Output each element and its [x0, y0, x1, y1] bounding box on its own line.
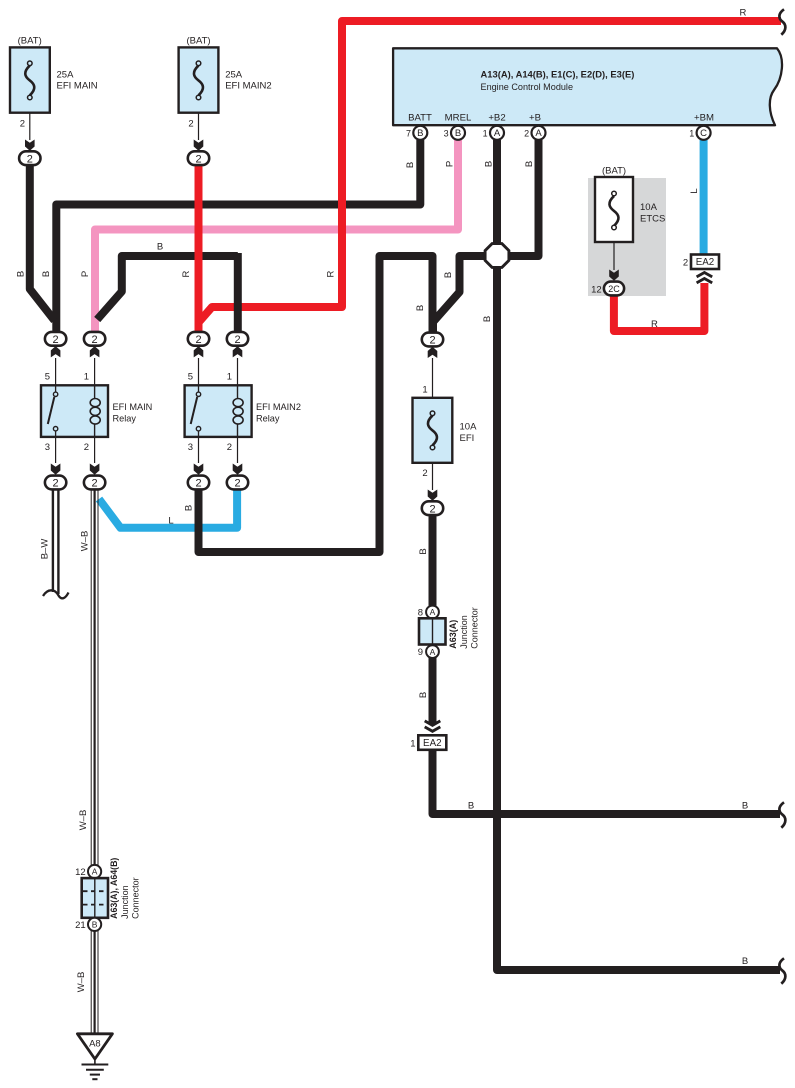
svg-text:2: 2 — [27, 153, 33, 165]
fuse F2 25A EFI MAIN2 — [179, 36, 272, 141]
svg-text:2: 2 — [20, 119, 25, 130]
svg-text:2: 2 — [234, 478, 240, 490]
wire B from BATT pin 7 to EFI MAIN relay pin 5 — [56, 140, 420, 332]
ECM pin 1 circled C (+BM) — [689, 126, 710, 140]
ECM pin 1 circled A (+B2) — [483, 126, 504, 140]
svg-text:A13(A), A14(B), E1(C), E2(D),: A13(A), A14(B), E1(C), E2(D), E3(E) — [481, 69, 635, 80]
connector EA2 (left) pin 1 — [410, 735, 446, 750]
wire B from ECM +B2 pin 1 down to lower B line — [497, 140, 780, 970]
svg-text:B–W: B–W — [40, 539, 51, 560]
wire B from ECM +B pin 2 to octagon junction — [505, 140, 539, 256]
svg-text:W–B: W–B — [76, 972, 87, 993]
svg-text:2: 2 — [53, 478, 59, 490]
svg-text:B: B — [742, 956, 748, 967]
svg-text:2: 2 — [84, 442, 89, 453]
svg-text:R: R — [326, 270, 337, 277]
ECM U1 Engine Control Module box — [393, 48, 782, 125]
ECM pin 2 circled A (+B) — [524, 126, 545, 140]
svg-text:8: 8 — [418, 608, 423, 619]
svg-text:R: R — [651, 319, 658, 330]
fuse F1 25A EFI MAIN — [10, 36, 98, 141]
svg-text:B: B — [16, 271, 27, 277]
svg-text:2: 2 — [92, 334, 98, 346]
octagon junction node of +B/+B2 — [485, 244, 509, 268]
svg-text:1: 1 — [410, 739, 415, 750]
svg-text:1: 1 — [422, 385, 427, 396]
arrow into connector 2C below ETCS fuse — [609, 270, 619, 281]
wire P from MREL pin 3 to EFI MAIN relay pin 1 — [95, 140, 458, 332]
svg-text:B: B — [418, 548, 429, 554]
svg-text:1: 1 — [689, 128, 694, 138]
arrow into connector below fuse F2 — [194, 140, 204, 151]
svg-text:2C: 2C — [608, 284, 620, 294]
svg-text:2: 2 — [524, 128, 529, 138]
svg-text:A63(A), A64(B): A63(A), A64(B) — [109, 858, 119, 919]
svg-text:B: B — [41, 271, 52, 277]
break squiggle right end of lower B wire — [779, 958, 785, 983]
svg-text:+B: +B — [529, 113, 541, 124]
svg-text:EA2: EA2 — [423, 738, 442, 749]
svg-text:B: B — [482, 316, 493, 322]
svg-text:2: 2 — [92, 478, 98, 490]
break squiggle right end of top R wire — [779, 9, 785, 34]
svg-text:2: 2 — [429, 503, 435, 515]
svg-text:B: B — [417, 128, 423, 139]
svg-text:(BAT): (BAT) — [18, 36, 42, 47]
svg-text:B: B — [742, 801, 748, 812]
relay K1 EFI MAIN Relay — [41, 358, 152, 463]
relay K2 EFI MAIN2 Relay — [185, 358, 301, 463]
svg-text:A: A — [430, 647, 436, 657]
ground A8 — [77, 1034, 112, 1079]
wire W-B from junction connector A63(A),A64(B) pin 21 to ground A8 — [91, 930, 98, 1034]
svg-text:12: 12 — [591, 284, 602, 295]
svg-text:(BAT): (BAT) — [186, 36, 210, 47]
svg-text:25A: 25A — [57, 70, 75, 81]
svg-text:B: B — [468, 801, 474, 812]
svg-text:21: 21 — [75, 920, 86, 931]
svg-text:B: B — [92, 920, 98, 930]
svg-text:W–B: W–B — [80, 531, 91, 552]
svg-text:B: B — [524, 161, 535, 167]
svg-text:L: L — [689, 188, 700, 193]
arrow into connector below fuse F1 — [25, 140, 35, 151]
svg-text:Connector: Connector — [469, 607, 479, 649]
svg-text:+BM: +BM — [694, 113, 714, 124]
svg-text:+B2: +B2 — [488, 113, 505, 124]
fuse F4 10A EFI — [413, 333, 478, 516]
wire B from 10A EFI fuse pin 2 to junction connector A63(A) — [429, 512, 437, 608]
svg-text:2: 2 — [227, 442, 232, 453]
svg-text:25A: 25A — [225, 70, 243, 81]
svg-text:Connector: Connector — [130, 877, 140, 919]
svg-text:P: P — [80, 271, 91, 277]
svg-text:10A: 10A — [460, 422, 478, 433]
svg-text:ETCS: ETCS — [640, 214, 665, 225]
svg-text:2: 2 — [195, 334, 201, 346]
svg-text:7: 7 — [406, 128, 411, 138]
svg-text:B: B — [455, 128, 461, 139]
svg-text:B: B — [484, 161, 495, 167]
svg-text:10A: 10A — [640, 202, 658, 213]
svg-text:A: A — [494, 128, 501, 139]
svg-text:A: A — [92, 867, 98, 877]
svg-text:2: 2 — [195, 153, 201, 165]
wire B from EFI MAIN2 relay pin 3 to 10A EFI fuse — [199, 256, 433, 552]
svg-text:P: P — [445, 161, 456, 167]
svg-text:B: B — [418, 692, 429, 698]
svg-text:1: 1 — [483, 128, 488, 138]
svg-text:R: R — [181, 270, 192, 277]
svg-text:5: 5 — [45, 372, 50, 383]
svg-text:EFI MAIN2: EFI MAIN2 — [225, 81, 271, 92]
svg-text:9: 9 — [418, 647, 423, 658]
svg-text:EA2: EA2 — [696, 257, 715, 268]
svg-text:2: 2 — [53, 334, 59, 346]
svg-text:5: 5 — [188, 372, 193, 383]
connector ovals above relay K1 — [51, 346, 61, 357]
wire B from fuse EFI MAIN to EFI MAIN relay pin 5 — [30, 160, 55, 321]
svg-text:(BAT): (BAT) — [602, 166, 626, 177]
connector ovals below relay K1 — [51, 464, 61, 475]
svg-text:B: B — [415, 305, 426, 311]
svg-text:B: B — [184, 505, 195, 511]
svg-text:A63(A): A63(A) — [448, 620, 458, 649]
svg-text:B: B — [157, 242, 163, 253]
wire B from junction connector A63(A) pin 9 to EA2 (left) — [429, 656, 437, 725]
svg-text:A8: A8 — [89, 1039, 101, 1050]
svg-text:3: 3 — [444, 128, 449, 138]
wire B-W from EFI MAIN relay pin 3 (black with white stripe) — [53, 488, 59, 594]
svg-text:B: B — [405, 162, 416, 168]
connector ovals above relay K2 — [194, 346, 204, 357]
wire W-B from EFI MAIN relay pin 2 to junction connector A63(A),A64(B) pin 12 (white with black stripe) — [91, 488, 98, 866]
gray battery block for ETCS fuse — [588, 178, 666, 296]
svg-text:3: 3 — [45, 442, 50, 453]
connector oval 2 below fuse F2 — [188, 151, 209, 165]
svg-text:EFI MAIN2: EFI MAIN2 — [256, 402, 301, 412]
wire B from +B2/+B junction to EFI MAIN relay pin 1 and EFI MAIN2 relay pin 1 — [97, 256, 238, 320]
svg-text:A: A — [535, 128, 542, 139]
break squiggle right end of middle B wire — [779, 802, 785, 827]
wire R from top right edge to EFI MAIN2 relay pin 5 — [199, 21, 782, 323]
connector oval 2C pin 12 — [591, 282, 624, 296]
svg-text:L: L — [168, 516, 173, 527]
break squiggle at end of B-W wire — [43, 590, 69, 598]
junction connector A63(A),A64(B) — [75, 858, 140, 931]
svg-text:R: R — [740, 8, 747, 19]
wire L from ECM +BM pin 1 to connector EA2 (right) — [700, 140, 708, 256]
wire R from fuse EFI MAIN2 to EFI MAIN2 relay pin 5 — [195, 160, 203, 332]
svg-text:Junction: Junction — [120, 885, 130, 919]
wire B segment over red from +B2/+B to EFI MAIN2 relay pin 1 — [234, 253, 242, 333]
ECM pin 3 circled B (MREL) — [444, 126, 465, 140]
svg-text:3: 3 — [188, 442, 193, 453]
svg-text:C: C — [700, 128, 707, 139]
connector ovals below relay K2 — [194, 464, 204, 475]
svg-text:W–B: W–B — [78, 810, 89, 831]
svg-text:Engine Control Module: Engine Control Module — [481, 82, 574, 92]
svg-text:BATT: BATT — [408, 113, 432, 124]
connector oval 2 below fuse F1 — [19, 151, 40, 165]
wire L from EFI MAIN relay pin 2 to EFI MAIN2 relay pin 2 — [99, 488, 237, 528]
svg-text:A: A — [430, 607, 436, 617]
svg-text:1: 1 — [84, 372, 89, 383]
junction connector A63(A) — [418, 606, 480, 658]
svg-text:1: 1 — [227, 372, 232, 383]
double chevron arrow into EA2 (right) — [697, 273, 713, 283]
svg-text:Relay: Relay — [256, 414, 280, 424]
svg-text:Junction: Junction — [459, 615, 469, 649]
svg-text:B: B — [443, 272, 454, 278]
svg-text:MREL: MREL — [445, 113, 472, 124]
svg-text:2: 2 — [429, 335, 435, 347]
svg-text:12: 12 — [75, 867, 86, 878]
svg-text:2: 2 — [422, 468, 427, 479]
svg-text:EFI MAIN: EFI MAIN — [113, 402, 153, 412]
svg-text:2: 2 — [188, 119, 193, 130]
wire R from 10A ETCS fuse to connector EA2 (right) — [614, 283, 705, 331]
double chevron arrow into EA2 (left) — [425, 721, 441, 731]
wire B from octagon junction to 10A EFI fuse — [433, 256, 490, 333]
svg-text:2: 2 — [683, 258, 688, 269]
connector EA2 (right) pin 2 — [683, 255, 719, 270]
svg-text:2: 2 — [195, 478, 201, 490]
svg-text:EFI: EFI — [460, 433, 475, 444]
svg-text:2: 2 — [234, 334, 240, 346]
svg-text:EFI MAIN: EFI MAIN — [57, 81, 98, 92]
svg-text:Relay: Relay — [113, 414, 137, 424]
ECM pin 7 circled B (BATT) — [406, 126, 427, 140]
wire B from EA2 (left) to right edge — [433, 749, 781, 814]
fuse F3 10A ETCS — [595, 166, 665, 271]
